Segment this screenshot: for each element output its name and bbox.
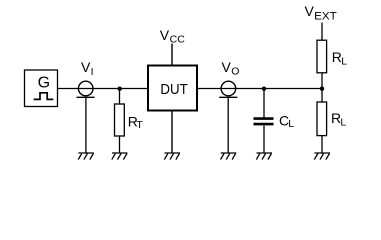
resistor RL2 (bottom) bbox=[317, 102, 327, 136]
wire VEXT to RL1 bbox=[321, 23, 323, 41]
capacitor CL top plate bbox=[254, 117, 274, 120]
ground (VO) bbox=[221, 153, 237, 160]
generator G1 pulse symbol bbox=[34, 93, 54, 100]
wire RT bottom stem bbox=[119, 136, 121, 153]
svg-text:EXT: EXT bbox=[314, 10, 337, 22]
resistor RT bbox=[115, 104, 125, 136]
ground (DUT) bbox=[164, 153, 180, 160]
ground (VI) bbox=[78, 153, 94, 160]
wire VO stem to ground bbox=[227, 97, 229, 153]
svg-text:V: V bbox=[81, 59, 91, 75]
wire VI stem to ground bbox=[85, 97, 87, 153]
wire CL top stem bbox=[263, 89, 265, 118]
capacitor CL bottom plate bbox=[254, 123, 274, 126]
wire RL1 to junction bbox=[321, 73, 323, 102]
wire G1 to node VI bbox=[58, 88, 94, 90]
svg-text:O: O bbox=[231, 65, 239, 77]
wire DUT bottom stem bbox=[171, 111, 173, 154]
node VI tangent bar bbox=[77, 96, 95, 98]
svg-text:L: L bbox=[288, 118, 294, 130]
wire RT top stem bbox=[119, 89, 121, 105]
node VO probe circle bbox=[221, 81, 236, 96]
wire CL bottom stem bbox=[263, 125, 265, 153]
junction node at RT bbox=[118, 87, 122, 91]
DUT U1 box bbox=[148, 66, 197, 111]
svg-text:T: T bbox=[136, 119, 143, 131]
svg-text:V: V bbox=[222, 59, 232, 75]
svg-text:V: V bbox=[160, 27, 170, 43]
node VI probe circle bbox=[78, 81, 93, 96]
svg-text:G: G bbox=[38, 75, 50, 92]
svg-text:L: L bbox=[341, 55, 347, 67]
junction node at CL bbox=[262, 87, 266, 91]
ground (CL) bbox=[256, 153, 272, 160]
ground (RT) bbox=[112, 153, 128, 160]
wire VI to DUT bbox=[93, 88, 148, 90]
svg-text:I: I bbox=[91, 66, 94, 78]
junction node at RL bbox=[320, 87, 324, 91]
svg-text:L: L bbox=[340, 116, 346, 128]
svg-text:DUT: DUT bbox=[160, 81, 187, 98]
resistor RL1 (top) bbox=[317, 40, 327, 73]
wire VO to RL junction bbox=[236, 88, 322, 90]
wire RL2 to ground bbox=[321, 136, 323, 153]
svg-text:V: V bbox=[305, 3, 315, 19]
node VO tangent bar bbox=[219, 96, 237, 98]
wire VCC to DUT bbox=[171, 44, 173, 67]
generator G1 box bbox=[25, 70, 58, 107]
wire DUT to node VO bbox=[198, 88, 237, 90]
ground (RL2) bbox=[314, 153, 330, 160]
